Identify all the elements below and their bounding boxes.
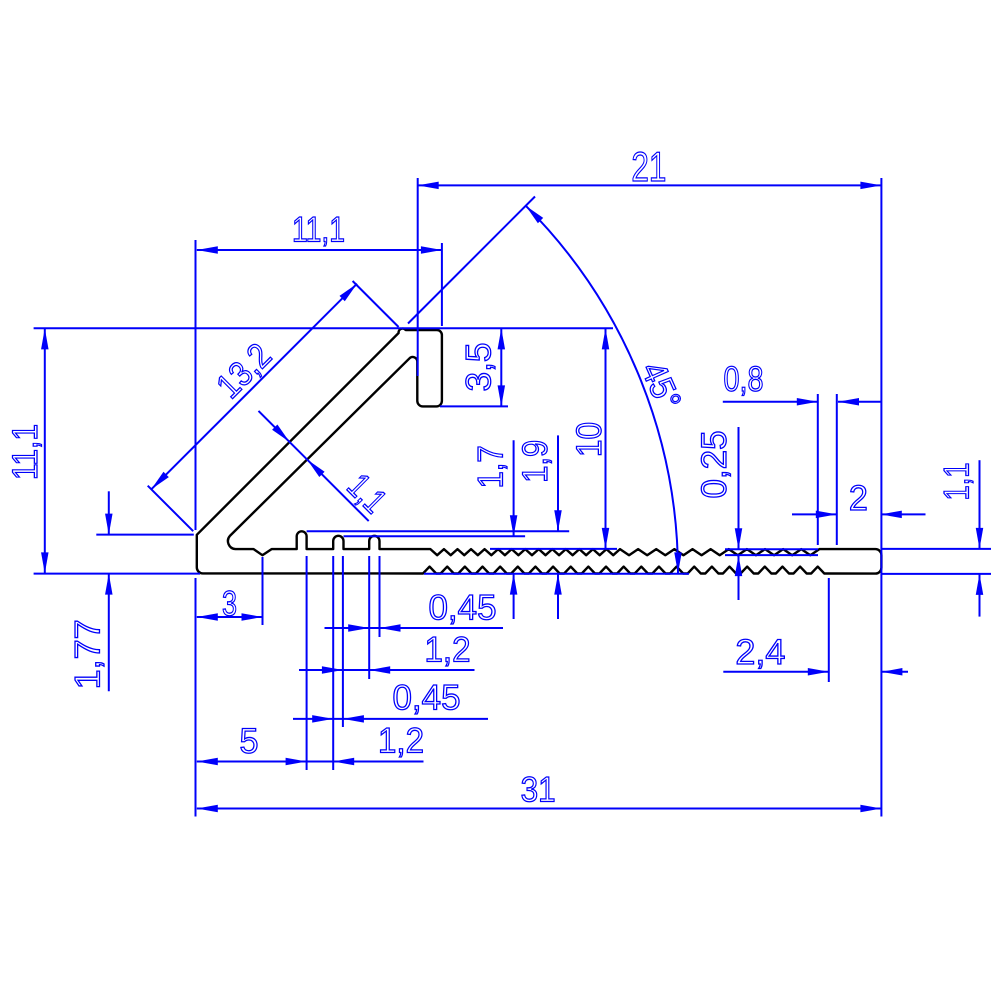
extension line: serration root (0,25) [725, 554, 818, 556]
svg-text:1,9: 1,9 [516, 440, 555, 483]
svg-text:1,77: 1,77 [69, 619, 108, 689]
svg-text:3,5: 3,5 [460, 343, 499, 392]
svg-text:1,7: 1,7 [471, 445, 510, 488]
extension line: 45deg diagonal prolongation [408, 197, 535, 324]
dimension 0,8 (serration runout) [723, 360, 881, 406]
extension line: lug1 top (1,9) [307, 530, 570, 532]
svg-text:45°: 45° [633, 356, 688, 416]
dimension 0,25 (serration depth) [695, 427, 742, 600]
extension line: leg right edge up (11,1 top) [441, 243, 443, 326]
extension line: flange top (10) [490, 548, 617, 550]
dimension 1,2 (lug1-lug2 gap) [333, 722, 424, 766]
extension line: lug3 right edge down (0,45) [379, 556, 381, 637]
extension line: lug3 left edge down (1,2 / 0,45) [368, 556, 370, 679]
dimension 31 (overall width) [197, 771, 882, 813]
dimension 10 (vertical) [570, 328, 609, 549]
extension line: flange top right (1,1) [881, 548, 991, 550]
dimension 11,1 (left vertical) [6, 328, 48, 573]
extension line: left edge vertical lower (3 / 5 / 31) [195, 578, 197, 817]
svg-text:1,2: 1,2 [378, 722, 424, 761]
dimension 11,1 (top horizontal) [197, 211, 442, 254]
svg-text:1,1: 1,1 [938, 463, 977, 501]
extension line: bottom serration end (2,4) [828, 578, 830, 682]
svg-text:2,4: 2,4 [735, 633, 785, 672]
svg-text:2: 2 [849, 479, 868, 518]
extension line: smooth zone start (0,8 / 2) [836, 394, 838, 545]
dimension 3 (left edge to v-notch) [197, 585, 263, 624]
extension line: lug2 left edge down (1,2 / 0,45) [332, 556, 334, 770]
dimension 1,77 (left edge height) [69, 491, 113, 691]
profile cross-section outline [197, 329, 882, 574]
dimension 1,9 (lug1 height) [516, 435, 562, 619]
svg-text:11,1: 11,1 [292, 211, 345, 250]
dimension 1,7 (lug2/3 height) [471, 440, 517, 619]
svg-text:5: 5 [240, 722, 259, 761]
svg-text:21: 21 [631, 143, 666, 190]
dimension 1,2 (lug2-lug3 gap) [299, 630, 475, 673]
extension line: profile top level (11,1 left / 3,5 / 10) [34, 327, 613, 329]
extension line: profile right end vertical (21 / 2 / 2,4 / 31) [880, 178, 882, 817]
extension line: lug1 right edge down (5 / 1,2) [306, 556, 308, 770]
extension line: serration end (0,8) [817, 394, 819, 545]
extension line: flange bottom right (1,1) [881, 573, 991, 575]
extension line: leg bottom (3,5) [440, 405, 508, 407]
extension line: serration crest (0,25) [725, 548, 818, 550]
dimension 21 (top horizontal) [418, 143, 882, 190]
dimension 3,5 (leg length vertical) [460, 328, 506, 406]
extension line: 13,2 upper (diagonal) [353, 281, 399, 327]
svg-text:1,2: 1,2 [425, 630, 471, 669]
svg-text:11,1: 11,1 [6, 424, 45, 480]
extension line: lug2 right edge down (0,45 / 1,2) [342, 556, 344, 727]
svg-text:13,2: 13,2 [209, 336, 279, 406]
extension line: left edge vertical upper (11,1 top) [195, 240, 197, 530]
extension line: lug2/3 top (1,7) [344, 535, 526, 537]
svg-text:0,45: 0,45 [429, 588, 497, 627]
dimension 2,4 (bottom smooth end) [723, 633, 908, 675]
extension line: leg left edge up (21) [417, 178, 419, 376]
extension line: 13,2 lower (diagonal) [148, 486, 194, 532]
svg-text:0,45: 0,45 [393, 678, 461, 717]
extension line: profile bottom level under serration [424, 573, 689, 575]
dimension 0,45 (lug3 width) [325, 588, 504, 631]
svg-text:0,25: 0,25 [695, 431, 734, 499]
dimension 5 (left edge to lug1) [197, 722, 424, 765]
dimension 0,45 (lug2 width) [293, 678, 488, 722]
extension line: v-notch centre (3) [262, 557, 264, 625]
svg-text:10: 10 [570, 422, 609, 457]
dimension 45&#176; (angle arc) [526, 206, 689, 574]
svg-text:3: 3 [222, 585, 237, 624]
svg-text:0,8: 0,8 [724, 360, 764, 399]
svg-text:31: 31 [521, 771, 556, 810]
dimension 13,2 (diagonal along arm) [151, 284, 357, 490]
svg-text:1,1: 1,1 [340, 466, 394, 520]
dimension 1,1 (arm wall thickness) [259, 411, 395, 521]
extension line: left edge top (1,77) [96, 534, 194, 536]
dimension 1,1 (flange thickness right) [938, 460, 984, 616]
dimension 2 (smooth end length) [792, 479, 926, 518]
extension line: profile bottom level left [34, 573, 200, 575]
